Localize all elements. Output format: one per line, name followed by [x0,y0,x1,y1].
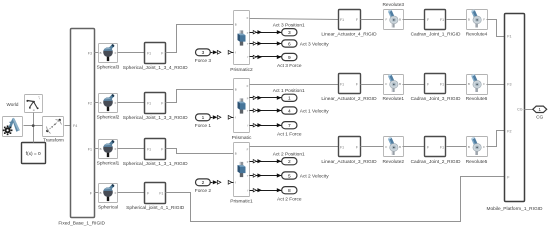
svg-text:F1: F1 [440,18,444,22]
rigid transform block Transform [43,117,65,143]
svg-text:Revolute4: Revolute4 [466,32,488,38]
svg-text:Revolute5: Revolute5 [466,159,488,165]
outport oval 1 Act 1 Position1 [273,88,305,101]
svg-text:Spherical2: Spherical2 [97,114,120,120]
world frame block World [7,95,43,113]
svg-text:CG: CG [517,107,523,111]
svg-text:9: 9 [288,55,291,61]
svg-text:F1: F1 [340,82,344,86]
svg-text:8: 8 [288,188,291,194]
subsystem block Spherical_Joint_1_3_3_RIGID [123,93,188,122]
spherical joint block Spherical [98,184,118,211]
wire mechanism-config to transform [24,125,43,127]
svg-text:Prismatic: Prismatic [232,135,252,141]
svg-text:F1: F1 [147,51,151,55]
svg-text:F1: F1 [147,101,151,105]
svg-text:Revolute3: Revolute3 [382,2,404,8]
signal wire Prismatic1 out to oval 2 [250,159,282,163]
svg-text:World: World [7,102,19,107]
spherical joint block Spherical3 [97,44,120,71]
svg-text:F: F [115,147,117,151]
svg-text:2: 2 [288,159,291,165]
svg-text:Revolute6: Revolute6 [466,96,488,102]
prismatic joint block Prismatic [232,79,252,142]
svg-text:Act 3 Force: Act 3 Force [277,63,302,69]
svg-text:F: F [356,18,358,22]
outport oval 5 Act 2 Velocity [282,172,330,179]
subsystem block Spherical_Joint_1_3_1_RIGID [123,139,188,168]
wire prismatic F to Linear_Actuator_3_RIGID [250,146,339,148]
wire Spherical2 to Spherical_Joint_1_3_3_RIGID [118,102,145,104]
outport oval 7 Act 1 Force [277,122,302,138]
wire Revolute6 to Mobile_Platform F3 [487,84,505,86]
svg-text:Spherical3: Spherical3 [97,64,120,70]
wire Revolute1 to Cadran_Joint_3_RIGID [403,84,425,86]
svg-text:F: F [386,145,388,149]
svg-text:F1: F1 [440,82,444,86]
svg-text:F: F [115,101,117,105]
svg-text:Act 3 Velocity: Act 3 Velocity [300,41,329,47]
wire Cadran_Joint_3_RIGID to Revolute6 [447,84,467,86]
svg-text:B: B [100,51,102,55]
svg-text:F1: F1 [147,147,151,151]
svg-text:B: B [100,147,102,151]
spherical joint block Spherical2 [97,94,120,121]
svg-text:F: F [115,51,117,55]
wire Spherical to Spherical_joint_4_1_RIGID [118,192,145,194]
svg-text:B: B [235,152,237,156]
svg-text:3: 3 [288,30,291,36]
inport oval 2 Force 2 [195,179,212,194]
revolute joint block Revolute1 [382,74,404,103]
wire transform to Fixed_Base F4 [65,125,71,127]
svg-text:Act 2 Force: Act 2 Force [277,196,302,202]
wire prismatic F to Linear_Actuator_2_RIGID [250,84,339,86]
svg-text:B: B [468,82,470,86]
svg-text:B: B [100,191,102,195]
svg-text:2: 2 [202,180,205,186]
svg-text:F: F [161,147,163,151]
svg-text:Revolute2: Revolute2 [382,159,404,165]
svg-text:F1: F1 [340,18,344,22]
wire Mobile_Platform CG to port 1 [525,109,533,111]
svg-text:F: F [161,51,163,55]
svg-text:Spherical: Spherical [98,204,118,210]
revolute joint block Revolute3 [382,2,404,30]
svg-text:Transform: Transform [43,138,64,143]
signal wire Prismatic1 out to oval 5 [250,173,282,177]
connection port hexagon 1 CG [533,106,547,121]
wire Cadran_Joint_1_RIGID to Revolute4 [447,19,467,21]
signal wire Force 2 into Prismatic1 [211,180,234,184]
svg-text:Act 3 Position1: Act 3 Position1 [273,23,305,29]
inport oval 1 Force 1 [195,114,212,129]
subsystem block Spherical_Joint_1_3_4_RIGID [123,43,188,72]
wire spherical joint row to Prismatic2 port B [166,25,234,53]
svg-text:Mobile_Platform_1_RIGID: Mobile_Platform_1_RIGID [487,206,544,212]
wire Linear_Actuator_4_RIGID to Revolute3 [361,19,384,21]
svg-text:F2: F2 [507,130,511,134]
inport oval 3 Force 3 [195,49,212,64]
wire spherical joint row to Prismatic1 port B [166,149,234,154]
revolute joint block Revolute6 [466,74,488,103]
svg-text:CG: CG [536,115,543,121]
subsystem block Linear_Actuator_2_RIGID [321,74,377,103]
svg-text:B: B [399,18,401,22]
signal wire Prismatic out to oval 4 [250,108,282,112]
wire Spherical3 to Spherical_Joint_1_3_4_RIGID [118,52,145,54]
svg-text:F2: F2 [88,102,92,106]
svg-text:Fixed_Base_1_RIGID: Fixed_Base_1_RIGID [58,221,105,227]
svg-text:Cadran_Joint_1_RIGID: Cadran_Joint_1_RIGID [411,32,461,38]
wire Linear_Actuator_3_RIGID to Revolute2 [361,146,384,148]
outport oval 4 Act 1 Velocity [282,107,330,114]
subsystem block Linear_Actuator_3_RIGID [321,137,377,166]
svg-text:Force 2: Force 2 [195,188,212,194]
signal wire Prismatic2 out to oval 6 [250,41,282,45]
svg-text:F: F [427,18,429,22]
svg-text:3: 3 [202,50,205,56]
svg-text:Linear_Actuator_3_RIGID: Linear_Actuator_3_RIGID [321,159,377,165]
svg-text:F4: F4 [73,124,77,128]
svg-text:F3: F3 [88,52,92,56]
subsystem block Cadran_Joint_1_RIGID [411,10,461,38]
svg-text:6: 6 [288,41,291,47]
subsystem block Mobile_Platform_1_RIGID [487,14,544,212]
spherical joint block Spherical1 [97,140,120,167]
svg-text:F3: F3 [507,83,511,87]
solver configuration block f(x)=0 [22,143,46,164]
svg-text:Prismatic2: Prismatic2 [230,67,253,73]
svg-text:f(x) = 0: f(x) = 0 [26,151,41,157]
wire world/solver junction vertical [33,113,35,143]
svg-text:F: F [483,18,485,22]
svg-text:Spherical1: Spherical1 [97,160,120,166]
svg-text:F: F [247,16,249,20]
signal wire Prismatic out to oval 1 [250,96,282,100]
svg-text:F1: F1 [159,191,163,195]
svg-text:B: B [399,82,401,86]
outport oval 9 Act 3 Force [277,53,302,69]
wire Fixed_Base to Spherical [95,192,99,194]
wire Revolute2 to Cadran_Joint_2_RIGID [403,146,425,148]
signal wire Force 1 into Prismatic [211,115,234,119]
prismatic joint block Prismatic1 [230,143,253,205]
svg-text:B: B [399,145,401,149]
svg-text:B: B [100,101,102,105]
prismatic joint block Prismatic2 [230,11,253,74]
wire Spherical_joint_4_1 to Mobile_Platform F (bottom run) [166,177,505,222]
subsystem block Cadran_Joint_3_RIGID [411,74,461,103]
svg-text:F: F [427,145,429,149]
outport oval 2 Act 2 Position1 [273,152,305,165]
subsystem block Spherical_joint_4_1_RIGID [126,183,185,212]
wire Spherical1 to Spherical_Joint_1_3_1_RIGID [118,148,145,150]
signal wire Force 3 into Prismatic2 [211,50,234,54]
svg-text:Cadran_Joint_2_RIGID: Cadran_Joint_2_RIGID [411,159,461,165]
junction dot [32,124,35,127]
svg-text:F: F [147,191,149,195]
svg-text:Spherical_Joint_1_3_4_RIGID: Spherical_Joint_1_3_4_RIGID [123,65,188,71]
subsystem block Linear_Actuator_4_RIGID [321,10,377,38]
svg-text:Spherical_Joint_1_3_3_RIGID: Spherical_Joint_1_3_3_RIGID [123,115,188,121]
svg-text:B: B [235,88,237,92]
svg-text:Spherical_joint_4_1_RIGID: Spherical_joint_4_1_RIGID [126,205,185,211]
outport oval 3 Act 3 Position1 [273,23,305,36]
svg-text:Act 1 Velocity: Act 1 Velocity [300,108,329,114]
svg-text:Act 1 Position1: Act 1 Position1 [273,88,305,94]
svg-text:F1: F1 [88,148,92,152]
wire Revolute4 to Mobile_Platform F1 [487,20,505,37]
svg-text:Revolute1: Revolute1 [382,96,404,102]
svg-text:Act 1 Force: Act 1 Force [277,131,302,137]
svg-text:4: 4 [288,108,291,114]
wire Fixed_Base to Spherical2 [95,102,99,104]
svg-text:F1: F1 [507,35,511,39]
svg-text:7: 7 [288,123,291,129]
svg-text:F1: F1 [440,145,444,149]
wire Revolute3 to Cadran_Joint_1_RIGID [403,19,425,21]
svg-text:Force 3: Force 3 [195,58,212,64]
svg-text:Cadran_Joint_3_RIGID: Cadran_Joint_3_RIGID [411,96,461,102]
mechanism configuration block (gear) [3,117,23,137]
svg-text:F: F [115,191,117,195]
signal wire Prismatic1 out to oval 8 [250,188,282,192]
signal wire Prismatic out to oval 7 [250,123,282,127]
svg-text:Act 2 Position1: Act 2 Position1 [273,152,305,158]
svg-text:Linear_Actuator_2_RIGID: Linear_Actuator_2_RIGID [321,96,377,102]
svg-text:Act 2 Velocity: Act 2 Velocity [300,173,329,179]
subsystem block Cadran_Joint_2_RIGID [411,137,461,166]
svg-text:F: F [356,145,358,149]
wire Fixed_Base to Spherical3 [95,52,99,54]
svg-text:F: F [247,148,249,152]
svg-text:F: F [356,82,358,86]
svg-text:F1: F1 [340,145,344,149]
wire spherical joint row to Prismatic port B [166,90,234,103]
svg-text:Force 1: Force 1 [195,123,212,129]
outport oval 6 Act 3 Velocity [282,40,330,47]
svg-text:1: 1 [288,96,291,102]
signal wire Prismatic2 out to oval 3 [250,30,282,34]
wire Revolute5 to Mobile_Platform F2 [487,131,505,147]
wire Cadran_Joint_2_RIGID to Revolute5 [447,146,467,148]
wire Fixed_Base to Spherical1 [95,148,99,150]
svg-text:F: F [247,84,249,88]
svg-text:Spherical_Joint_1_3_1_RIGID: Spherical_Joint_1_3_1_RIGID [123,161,188,167]
subsystem block Fixed_Base_1_RIGID [58,29,105,227]
revolute joint block Revolute5 [466,137,488,166]
revolute joint block Revolute4 [466,9,488,38]
svg-text:F: F [483,82,485,86]
svg-text:B: B [468,145,470,149]
svg-text:5: 5 [288,173,291,179]
svg-text:F: F [427,82,429,86]
svg-text:B: B [235,23,237,27]
svg-text:F: F [161,101,163,105]
wire prismatic F to Linear_Actuator_4_RIGID [250,19,339,20]
svg-text:F: F [386,82,388,86]
svg-text:Linear_Actuator_4_RIGID: Linear_Actuator_4_RIGID [321,32,377,38]
outport oval 8 Act 2 Force [277,187,302,203]
wire Linear_Actuator_2_RIGID to Revolute1 [361,84,384,86]
revolute joint block Revolute2 [382,137,404,166]
svg-text:Prismatic1: Prismatic1 [230,199,253,205]
signal wire Prismatic2 out to oval 9 [250,55,282,59]
svg-text:B: B [468,18,470,22]
svg-text:F: F [386,18,388,22]
svg-text:F: F [483,145,485,149]
svg-text:1: 1 [202,115,205,121]
